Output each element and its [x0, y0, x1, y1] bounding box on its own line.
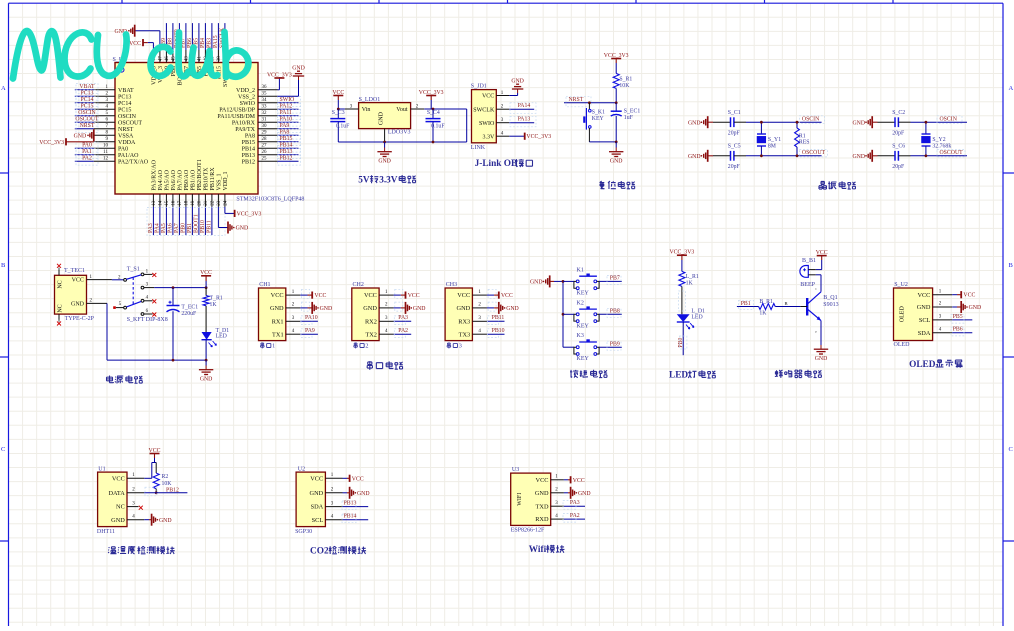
wire S_C5 to OSCOUT: [734, 155, 746, 157]
net label PB14 (U1 right): [278, 147, 299, 149]
svg-text:SWCLK: SWCLK: [473, 107, 495, 113]
wire R1 to NRST node: [615, 88, 617, 102]
svg-text:PC13: PC13: [81, 90, 94, 96]
svg-text:GND: GND: [200, 376, 213, 382]
svg-text:PC15: PC15: [118, 107, 131, 113]
svg-text:T_EC1: T_EC1: [181, 305, 198, 311]
power GND (reset): [615, 142, 617, 148]
svg-text:TX3: TX3: [459, 331, 471, 338]
net label PB9 (K3): [599, 346, 622, 348]
svg-text:VBAT: VBAT: [118, 88, 134, 94]
junction EC1 at VCC rail: [172, 286, 175, 289]
net label OSCOUT at x=940: [937, 149, 965, 157]
svg-text:OSCIN: OSCIN: [78, 110, 96, 116]
svg-text:PA5: PA5: [161, 223, 167, 233]
U1 pin 13 PA3/RX/AO: [152, 194, 154, 207]
net label PA15 (U1 top): [217, 23, 219, 50]
svg-text:A: A: [1, 85, 6, 92]
junction crystal top x=761: [760, 121, 763, 124]
LED T_D1: [202, 332, 212, 340]
caption keys circuit: [570, 370, 578, 378]
svg-text:SGP30: SGP30: [295, 529, 312, 535]
svg-text:GND: GND: [969, 305, 982, 311]
power GND at U1 pin 47: [134, 25, 136, 37]
resistor T_R1 1K: [205, 288, 207, 296]
svg-text:OSCIN: OSCIN: [940, 117, 958, 123]
net label PA7 (U1 bottom): [178, 207, 180, 235]
net label SWCLK (U1 top): [224, 23, 226, 50]
svg-text:PB13: PB13: [344, 501, 357, 507]
svg-text:KEY: KEY: [577, 323, 590, 329]
svg-text:30: 30: [262, 124, 268, 129]
svg-text:46: 46: [165, 56, 170, 62]
svg-text:VCC_3V3: VCC_3V3: [237, 212, 262, 218]
svg-text:5V: 5V: [358, 175, 370, 185]
svg-text:K2: K2: [577, 300, 584, 306]
svg-text:PC14: PC14: [81, 97, 94, 103]
caption buzzer circuit: [775, 370, 783, 378]
caption reset circuit: [599, 181, 604, 189]
svg-text:OSCOUT: OSCOUT: [118, 120, 142, 126]
svg-text:PB15: PB15: [280, 136, 293, 142]
svg-text:PA15: PA15: [213, 35, 219, 48]
U1 pin 36 VDD_2: [258, 89, 278, 91]
svg-text:0.1uF: 0.1uF: [336, 124, 350, 130]
svg-text:GND: GND: [530, 280, 543, 286]
net label PA9 (CH1 TX): [300, 333, 318, 335]
svg-text:GND: GND: [320, 306, 333, 312]
svg-text:SWIO: SWIO: [280, 97, 295, 103]
wire JD1 VCC to GND port: [509, 95, 517, 97]
net label PA10 (CH1 RX): [300, 320, 318, 322]
transistor B_Q1 S9013: [806, 298, 808, 316]
caption power circuit: [107, 375, 114, 382]
svg-text:TX2: TX2: [365, 331, 377, 338]
svg-text:PB6: PB6: [953, 327, 963, 333]
svg-text:PB7: PB7: [610, 276, 620, 282]
TEC1 pin 1 VCC: [87, 279, 112, 281]
CH2 pin 3 RX2: [379, 320, 394, 322]
wire GND to S_C6: [878, 155, 896, 157]
svg-text:PB5: PB5: [953, 314, 963, 320]
svg-text:1: 1: [272, 343, 275, 350]
svg-text:20: 20: [198, 200, 203, 206]
wire GND to keys trunk: [554, 280, 563, 282]
power VCC (wifi): [564, 479, 568, 481]
svg-text:27: 27: [262, 144, 268, 149]
wire ground rail: [107, 359, 206, 361]
net label PA9 (U1 right): [278, 128, 299, 130]
wire LDO Vout to VCC_3V3: [424, 108, 466, 110]
net label PB11 (U1 bottom): [211, 207, 213, 235]
CH3 pin 4 TX3: [472, 333, 487, 335]
U1 pin 26 PB13: [258, 154, 278, 156]
junction trunk K2: [562, 313, 565, 316]
svg-text:GND: GND: [853, 154, 866, 160]
svg-text:36: 36: [262, 85, 268, 90]
net label PB14 (SGP30 SCL): [343, 519, 369, 521]
svg-text:PA9: PA9: [280, 123, 290, 129]
net label PB6 (U1 top): [191, 23, 193, 50]
net label BOOT1 (U1 bottom): [198, 207, 200, 235]
net label PA3 (CH2 RX): [394, 320, 412, 322]
svg-text:GND: GND: [610, 158, 623, 164]
svg-text:1uF: 1uF: [624, 115, 634, 121]
svg-text:PA0: PA0: [82, 142, 92, 148]
power GND (J-Link): [517, 89, 519, 93]
svg-text:21: 21: [204, 200, 209, 206]
power GND (power circuit): [205, 360, 207, 365]
svg-text:PB11: PB11: [207, 220, 213, 233]
svg-text:NC: NC: [58, 304, 64, 312]
svg-text:C: C: [1, 446, 5, 453]
svg-text:PA10: PA10: [305, 315, 318, 321]
svg-text:VDD_1: VDD_1: [223, 172, 229, 191]
power VCC_3V3 at U1 pin 9 VDDA: [66, 141, 94, 143]
net label PA11 (U1 right): [278, 115, 299, 117]
net label PB5 (OLED SCL): [952, 319, 972, 321]
U1 pin 3 PC14: [94, 102, 115, 104]
net label OSCIN at x=802: [799, 116, 824, 124]
svg-text:NRST: NRST: [80, 123, 95, 129]
power GND at U1 pin 8 VSSA: [93, 129, 95, 141]
svg-text:19: 19: [191, 200, 196, 206]
SGP30 pin 2 GND: [325, 492, 342, 494]
svg-text:SDA: SDA: [918, 330, 931, 337]
svg-text:GND: GND: [292, 65, 305, 71]
wire base: [800, 306, 807, 308]
wire U1 pin35 to GND: [278, 95, 299, 97]
junction LED at ground rail: [205, 359, 208, 362]
CH3 pin 2 GND: [472, 307, 487, 309]
dash mask around U1 bottom labels: [147, 208, 225, 236]
net label PB8 (U1 top): [172, 23, 174, 50]
svg-text:3.3V: 3.3V: [482, 134, 495, 140]
resistor R2 10K (pull-up): [155, 463, 157, 474]
junction crystal bottom x=926: [925, 154, 928, 157]
svg-text:OLED: OLED: [909, 360, 936, 370]
svg-text:RXD: RXD: [535, 516, 549, 523]
power GND (DHT11): [144, 519, 149, 521]
net label PB11 (CH3 RX): [487, 320, 505, 322]
svg-text:3.3V: 3.3V: [379, 175, 398, 185]
wire S_C2 to OSCIN: [899, 121, 911, 123]
LDO U LDO1 body: [359, 103, 411, 129]
svg-text:32.768k: 32.768k: [932, 143, 951, 149]
svg-text:10K: 10K: [162, 481, 173, 487]
net label BOOT0 (U1 top): [178, 23, 180, 50]
svg-text:220uF: 220uF: [181, 311, 197, 317]
svg-text:LINK: LINK: [471, 145, 486, 151]
net label PB10 (CH3 TX): [487, 333, 505, 335]
svg-text:VCC: VCC: [408, 293, 420, 299]
svg-text:PB0: PB0: [678, 338, 684, 348]
U1 pin 15 PA5/AO: [165, 194, 167, 207]
net label PB8 (K2): [599, 313, 622, 315]
svg-text:VSS_2: VSS_2: [238, 94, 255, 100]
net label PB1 (U1 bottom): [191, 207, 193, 235]
crystal S_Y2 32.768k: [925, 122, 927, 134]
svg-text:CH1: CH1: [259, 282, 270, 288]
svg-text:GND: GND: [917, 304, 931, 311]
TEC1 NC stub bottom: [58, 314, 60, 322]
U2-OLED pin 2 GND: [933, 306, 953, 308]
svg-text:1K: 1K: [686, 280, 694, 286]
svg-text:NRST: NRST: [569, 97, 584, 103]
U1 pin 31 PA10/RX: [258, 121, 278, 123]
U1 pin 33 PA12/USB/DP: [258, 108, 278, 110]
wire buzzer to Q1 collector: [816, 274, 821, 276]
net label PA2 (wifi RXD): [564, 518, 585, 520]
svg-text:26: 26: [262, 150, 268, 155]
svg-text:J-Link OB: J-Link OB: [475, 159, 518, 169]
U1 pin 46 PB9: [165, 50, 167, 63]
wire L_R1 to LED: [681, 286, 683, 314]
U1 pin 28 PB15: [258, 141, 278, 143]
no-connect X on DHT11 NC pin: [139, 506, 143, 510]
svg-text:S_KFT DIP-8X8: S_KFT DIP-8X8: [127, 317, 168, 323]
CH2 label serial-2: [354, 343, 357, 349]
net label PA3 (U1 bottom): [152, 207, 154, 235]
svg-text:L_R1: L_R1: [686, 274, 699, 280]
power GND at U1 pin 35: [298, 76, 300, 80]
ESP8266 pin 2 GND: [551, 492, 564, 494]
TEC1 pin 2 GND: [87, 302, 108, 304]
svg-text:KEY: KEY: [577, 356, 590, 362]
ESP8266 pin 4 RXD: [551, 518, 564, 520]
svg-text:PB1: PB1: [187, 223, 193, 233]
capacitor S_EC1 1uF: [615, 103, 617, 111]
net label OSCIN (U1 left): [75, 115, 94, 117]
connector CH3 body: [445, 288, 472, 341]
svg-text:ESP8266-12F: ESP8266-12F: [511, 527, 545, 533]
capacitor S_C6 20pF: [894, 151, 896, 161]
svg-text:OSCOUT: OSCOUT: [802, 150, 826, 156]
svg-text:GND: GND: [815, 356, 828, 362]
net label PB0 (U1 bottom): [185, 207, 187, 235]
power VCC_3V3 (J-Link 3.3V pin): [509, 135, 524, 137]
caption temperature-humidity module: [108, 547, 116, 554]
CH2 pin 2 GND: [379, 307, 394, 309]
svg-text:VDD_2: VDD_2: [236, 88, 255, 94]
svg-text:LED: LED: [669, 371, 688, 381]
svg-text:PA14: PA14: [518, 103, 531, 109]
svg-text:PB8: PB8: [610, 309, 620, 315]
svg-text:VSSA: VSSA: [118, 133, 134, 139]
B1 pin 2: [808, 274, 816, 276]
U1 pin 12 PA2/TX/AO: [94, 160, 115, 162]
svg-text:VCC_3V3: VCC_3V3: [39, 140, 64, 146]
net label PA5 (U1 bottom): [165, 207, 167, 235]
svg-text:VCC: VCC: [573, 478, 585, 484]
svg-text:10: 10: [103, 144, 109, 149]
svg-text:VCC: VCC: [112, 475, 125, 482]
svg-text:U1: U1: [98, 466, 105, 472]
svg-text:PA2: PA2: [570, 513, 580, 519]
svg-text:PB1: PB1: [741, 301, 751, 307]
U1 pin 48 VDD_3: [152, 50, 154, 63]
svg-text:PA9: PA9: [305, 328, 315, 334]
module U3 ESP8266-12F body: [511, 473, 551, 525]
U1 pin 45 PB8: [172, 50, 174, 63]
caption serial circuit: [367, 361, 372, 370]
svg-text:VSS_1: VSS_1: [217, 173, 223, 190]
U1 pin 19 PB1/AO: [191, 194, 193, 207]
svg-text:PC14: PC14: [118, 101, 131, 107]
svg-text:PB2/BOOT1: PB2/BOOT1: [197, 159, 203, 190]
wire T_R1 to LED: [205, 306, 207, 332]
svg-text:VCC: VCC: [963, 293, 975, 299]
svg-text:11: 11: [103, 150, 108, 155]
ESP8266 pin 3 TXD: [551, 505, 564, 507]
svg-text:PA2: PA2: [82, 155, 92, 161]
CH2 pin 4 TX2: [379, 333, 394, 335]
svg-text:20pF: 20pF: [728, 164, 741, 170]
svg-text:PB14: PB14: [280, 142, 293, 148]
SGP30 pin 3 SDA: [325, 506, 342, 508]
CH3 label serial-3: [447, 343, 450, 349]
svg-text:VCC: VCC: [917, 292, 930, 299]
U1 pin 44 BOOT0: [178, 50, 180, 63]
svg-text:PB11/RX: PB11/RX: [210, 167, 216, 191]
svg-text:GND: GND: [310, 490, 324, 497]
wire S_C6 to OSCOUT: [899, 155, 911, 157]
svg-text:47: 47: [159, 56, 164, 62]
connector S_JD1 body (J-Link): [472, 90, 497, 143]
resistor L_R1 1K: [679, 271, 685, 286]
svg-text:33: 33: [262, 105, 268, 110]
U1 pin 17 PA7/AO: [178, 194, 180, 207]
svg-text:PA6/AO: PA6/AO: [171, 169, 177, 190]
svg-text:RX1: RX1: [272, 318, 284, 325]
svg-text:PA1: PA1: [82, 149, 92, 155]
CH1 pin 2 GND: [286, 307, 301, 309]
svg-text:OLED: OLED: [900, 306, 906, 323]
svg-text:BEEP: BEEP: [800, 282, 815, 288]
svg-text:17: 17: [178, 200, 183, 206]
net label PA2 (CH2 TX): [394, 333, 412, 335]
svg-text:S_R1: S_R1: [619, 77, 632, 83]
net label PB10 (U1 bottom): [204, 207, 206, 235]
capacitor T_EC1 220uF: [172, 288, 174, 306]
power GND (CH3): [487, 307, 494, 309]
resistor S_R1 10K: [613, 73, 619, 88]
svg-text:12: 12: [103, 157, 109, 162]
svg-text:TXD: TXD: [536, 503, 549, 510]
svg-text:PA3/RX/AO: PA3/RX/AO: [152, 159, 158, 190]
U1 pin 8 VSSA: [94, 134, 115, 136]
svg-text:2: 2: [365, 343, 368, 350]
svg-text:KEY: KEY: [577, 290, 590, 296]
power GND (wifi): [564, 492, 568, 494]
svg-text:GND: GND: [159, 518, 172, 524]
svg-text:PA12/USB/DP: PA12/USB/DP: [219, 107, 255, 113]
svg-text:PB10: PB10: [492, 328, 505, 334]
svg-text:NC: NC: [58, 280, 64, 288]
net label PA13: [509, 122, 534, 124]
power GND (LDO): [384, 142, 386, 148]
svg-text:NC: NC: [116, 504, 125, 511]
svg-text:VCC: VCC: [482, 94, 494, 100]
JD1 pin 4 3.3V: [496, 135, 509, 137]
svg-text:VCC: VCC: [314, 293, 326, 299]
svg-text:PA1/AO: PA1/AO: [118, 153, 139, 159]
svg-text:VCC: VCC: [501, 293, 513, 299]
svg-text:S_EC1: S_EC1: [624, 108, 641, 114]
svg-text:TYPE-C-2P: TYPE-C-2P: [65, 316, 95, 322]
svg-text:SCL: SCL: [919, 317, 931, 324]
svg-text:B: B: [1009, 262, 1014, 269]
power GND (CH2): [394, 307, 401, 309]
svg-text:c: c: [815, 286, 817, 291]
wire LED to ground rail: [205, 340, 207, 360]
power VCC (CH1): [300, 294, 307, 296]
svg-text:10K: 10K: [619, 83, 630, 89]
svg-text:C: C: [1009, 446, 1013, 453]
net label PA0 (U1 left): [75, 147, 94, 149]
U1 pin 29 PA8: [258, 134, 278, 136]
svg-text:B: B: [785, 301, 788, 306]
svg-text:PA3: PA3: [148, 223, 154, 233]
svg-text:GND: GND: [379, 111, 385, 125]
svg-text:18: 18: [185, 200, 190, 206]
U1 pin 43 PB7: [185, 50, 187, 63]
capacitor S_C4 0.1uF: [432, 109, 434, 119]
svg-text:41: 41: [198, 56, 203, 62]
svg-text:WIFI: WIFI: [517, 493, 523, 506]
U2-OLED pin 4 SDA: [933, 332, 953, 334]
junction R1 bottom: [796, 154, 799, 157]
svg-text:S_C4: S_C4: [427, 110, 440, 116]
power GND (buzzer): [820, 345, 822, 349]
svg-text:25: 25: [262, 157, 268, 162]
wire GND to S_C2: [878, 121, 896, 123]
svg-text:24: 24: [224, 200, 229, 206]
svg-text:VCC: VCC: [310, 475, 323, 482]
U1 pin 18 PB0/AO: [185, 194, 187, 207]
svg-text:PA9/TX: PA9/TX: [235, 127, 255, 133]
U1 pin 41 PB5: [198, 50, 200, 63]
svg-text:32: 32: [262, 111, 268, 116]
svg-text:PA8: PA8: [280, 129, 290, 135]
svg-text:PB10/TX: PB10/TX: [204, 167, 210, 191]
svg-text:PB9: PB9: [610, 341, 620, 347]
connector CH2 body: [352, 288, 379, 341]
net label VBAT (U1 left): [75, 89, 94, 91]
svg-text:S_LDO1: S_LDO1: [359, 97, 381, 103]
net label PC13 (U1 left): [75, 95, 94, 97]
svg-text:PB12: PB12: [166, 487, 179, 493]
net label PB13 (U1 right): [278, 154, 299, 156]
svg-text:S_C3: S_C3: [332, 110, 345, 116]
svg-text:PB12: PB12: [280, 155, 293, 161]
U1 pin 20 PB2/BOOT1: [198, 194, 200, 207]
svg-text:S_C2: S_C2: [892, 110, 905, 116]
svg-text:STM32F103C8T6_LQFP48: STM32F103C8T6_LQFP48: [236, 196, 304, 202]
svg-text:RX3: RX3: [458, 318, 470, 325]
svg-text:SWIO: SWIO: [479, 121, 495, 127]
MCU U1 body STM32F103C8T6: [115, 63, 258, 195]
power VCC (SGP30): [343, 477, 348, 479]
net label PA14: [509, 108, 534, 110]
svg-text:R2: R2: [162, 474, 169, 480]
U1 pin 38 PA15: [217, 50, 219, 63]
svg-text:PA4: PA4: [155, 223, 161, 233]
net label PB6 (OLED SDA): [952, 332, 972, 334]
U1 pin 37 SWCLK: [224, 50, 226, 63]
svg-text:Wifi: Wifi: [529, 545, 547, 555]
svg-text:PA3: PA3: [570, 500, 580, 506]
